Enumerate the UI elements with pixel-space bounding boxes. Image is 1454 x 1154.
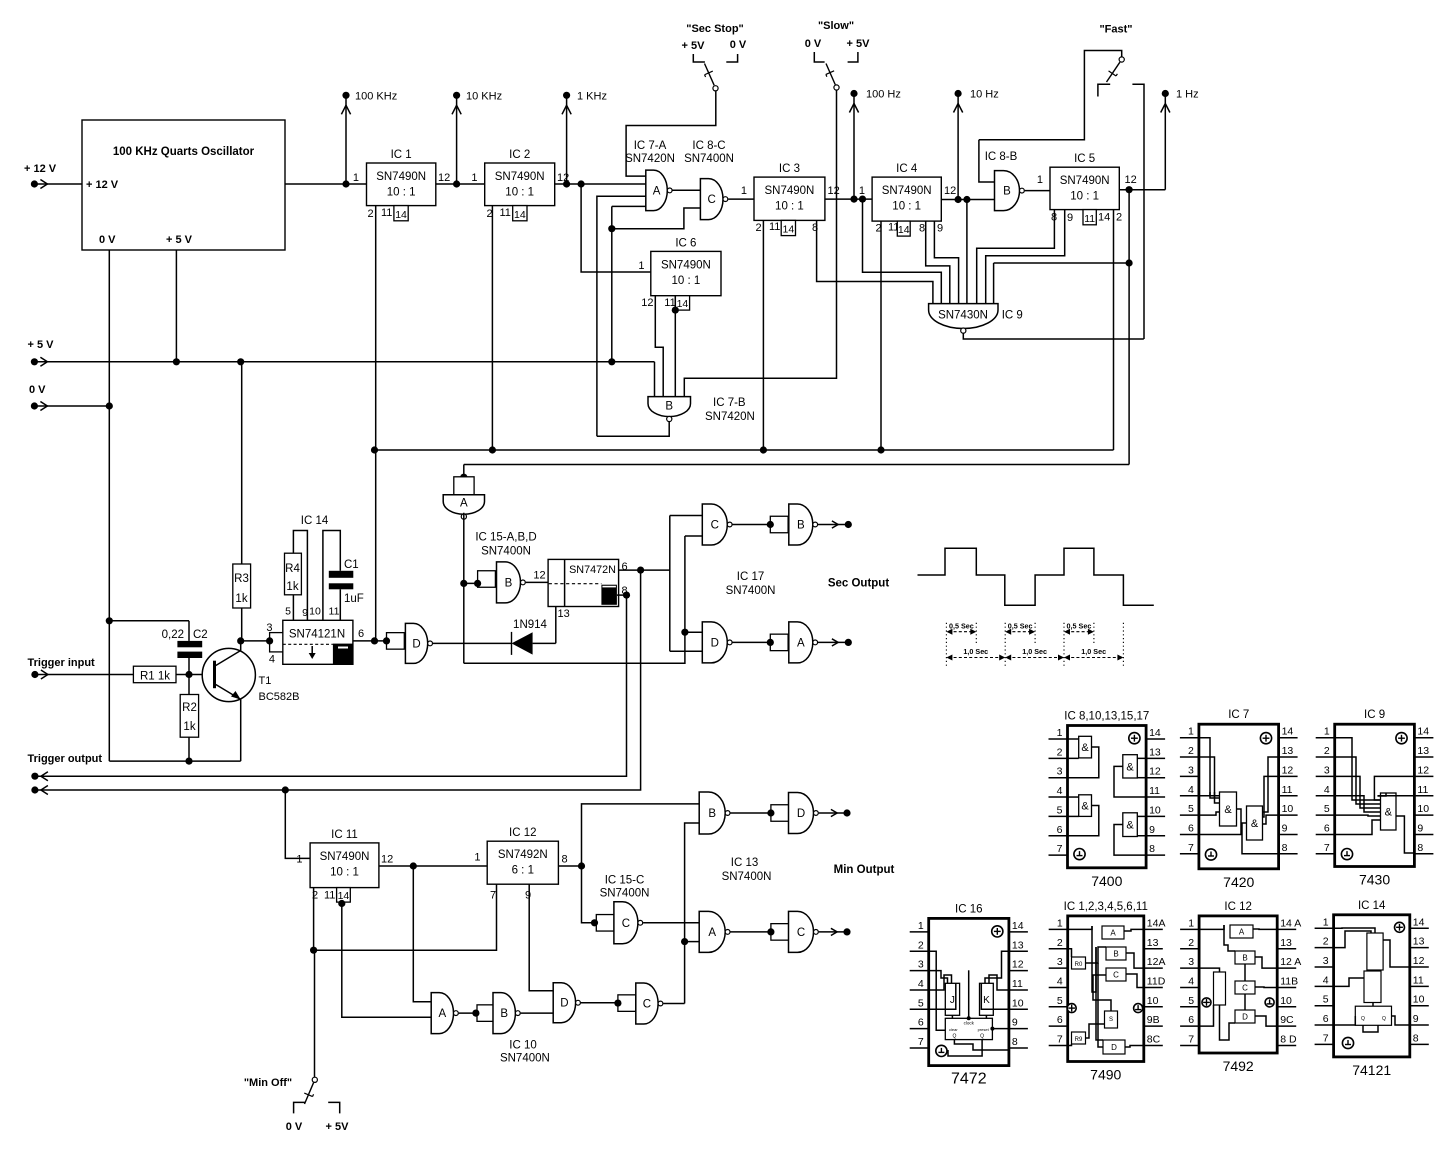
svg-text:SN7490N: SN7490N <box>1060 175 1110 187</box>
svg-text:C: C <box>643 999 651 1011</box>
svg-text:14 A: 14 A <box>1280 917 1301 929</box>
svg-text:1: 1 <box>474 852 480 864</box>
svg-text:SN7400N: SN7400N <box>481 546 531 558</box>
svg-text:7: 7 <box>1057 843 1063 855</box>
svg-text:A: A <box>1110 929 1116 938</box>
svg-text:6: 6 <box>1324 822 1330 834</box>
svg-text:7: 7 <box>918 1036 924 1048</box>
svg-text:+ 5V: + 5V <box>326 1121 350 1133</box>
svg-text:7: 7 <box>1188 1034 1194 1046</box>
svg-text:1: 1 <box>918 920 924 932</box>
svg-text:IC 3: IC 3 <box>779 163 800 175</box>
svg-text:IC 9: IC 9 <box>1002 310 1023 322</box>
svg-text:14: 14 <box>338 890 350 902</box>
svg-text:&: & <box>1126 761 1134 773</box>
svg-text:3: 3 <box>918 959 924 971</box>
svg-text:Q: Q <box>1361 1016 1365 1022</box>
svg-text:R1 1k: R1 1k <box>140 671 170 683</box>
svg-text:7: 7 <box>1323 1032 1329 1044</box>
svg-text:D: D <box>711 637 719 649</box>
svg-text:SN7490N: SN7490N <box>320 851 370 863</box>
svg-text:14: 14 <box>1149 727 1161 739</box>
svg-text:12: 12 <box>438 172 450 184</box>
svg-text:Q: Q <box>952 1034 956 1040</box>
svg-text:D: D <box>1111 1043 1117 1052</box>
svg-text:C: C <box>1242 984 1248 993</box>
svg-text:8C: 8C <box>1147 1034 1161 1046</box>
svg-text:8: 8 <box>1282 842 1288 854</box>
svg-text:7: 7 <box>1324 842 1330 854</box>
svg-text:1k: 1k <box>183 721 195 733</box>
svg-text:1: 1 <box>1324 726 1330 738</box>
svg-text:1 KHz: 1 KHz <box>577 90 607 102</box>
svg-text:&: & <box>1126 820 1134 832</box>
svg-text:10 : 1: 10 : 1 <box>892 201 921 213</box>
svg-text:9: 9 <box>937 223 943 235</box>
svg-text:7420: 7420 <box>1223 874 1254 890</box>
svg-text:preset: preset <box>978 1027 990 1032</box>
svg-text:&: & <box>1224 804 1232 816</box>
svg-text:D: D <box>560 998 568 1010</box>
svg-text:4: 4 <box>1188 784 1194 796</box>
svg-text:SN7420N: SN7420N <box>705 411 755 423</box>
svg-text:0 V: 0 V <box>805 38 822 50</box>
svg-text:+ 5V: + 5V <box>847 38 871 50</box>
svg-text:1k: 1k <box>235 593 247 605</box>
svg-text:6: 6 <box>622 561 628 573</box>
svg-text:12A: 12A <box>1147 956 1166 968</box>
svg-text:5: 5 <box>1188 995 1194 1007</box>
svg-text:IC 7: IC 7 <box>1228 709 1249 721</box>
svg-text:8: 8 <box>1012 1036 1018 1048</box>
svg-text:IC 11: IC 11 <box>331 829 358 841</box>
svg-text:7400: 7400 <box>1091 873 1122 889</box>
svg-text:9: 9 <box>525 890 531 902</box>
svg-text:9: 9 <box>1149 824 1155 836</box>
svg-text:2: 2 <box>1188 745 1194 757</box>
svg-text:12: 12 <box>1282 764 1294 776</box>
svg-text:SN7490N: SN7490N <box>765 185 815 197</box>
svg-text:1,0 Sec: 1,0 Sec <box>963 647 988 656</box>
svg-text:B: B <box>500 1008 508 1020</box>
svg-text:C: C <box>708 194 716 206</box>
svg-text:7: 7 <box>1188 842 1194 854</box>
svg-text:1: 1 <box>1188 917 1194 929</box>
svg-text:2: 2 <box>1188 937 1194 949</box>
svg-text:1k: 1k <box>286 581 298 593</box>
svg-text:8 D: 8 D <box>1280 1034 1297 1046</box>
svg-text:Sec Output: Sec Output <box>828 578 890 590</box>
svg-text:11: 11 <box>324 890 335 902</box>
svg-text:5: 5 <box>1324 803 1330 815</box>
svg-text:SN7420N: SN7420N <box>625 153 675 165</box>
svg-text:10 : 1: 10 : 1 <box>672 275 701 287</box>
svg-text:D: D <box>797 808 805 820</box>
svg-text:10: 10 <box>1149 804 1161 816</box>
svg-text:12 A: 12 A <box>1280 956 1301 968</box>
svg-text:8: 8 <box>1149 843 1155 855</box>
svg-text:9B: 9B <box>1147 1014 1160 1026</box>
svg-text:11: 11 <box>1417 784 1428 796</box>
svg-text:6: 6 <box>1057 824 1063 836</box>
svg-text:14: 14 <box>783 224 795 236</box>
svg-text:2: 2 <box>1057 746 1063 758</box>
svg-text:2: 2 <box>368 208 374 220</box>
svg-text:D: D <box>412 638 420 650</box>
svg-text:SN7490N: SN7490N <box>495 171 545 183</box>
svg-text:11: 11 <box>329 606 340 618</box>
svg-text:13: 13 <box>558 608 570 620</box>
svg-text:C1: C1 <box>344 559 359 571</box>
svg-text:12: 12 <box>944 185 956 197</box>
svg-text:B: B <box>665 401 673 413</box>
svg-text:7: 7 <box>490 890 496 902</box>
svg-text:11: 11 <box>1012 978 1023 990</box>
svg-text:2: 2 <box>1324 745 1330 757</box>
svg-text:A: A <box>439 1008 447 1020</box>
svg-text:0,5 Sec: 0,5 Sec <box>1008 622 1033 631</box>
svg-text:A: A <box>460 497 468 509</box>
svg-text:1 Hz: 1 Hz <box>1176 89 1199 101</box>
svg-text:4: 4 <box>1324 784 1330 796</box>
svg-text:5: 5 <box>285 606 291 618</box>
svg-text:0,5 Sec: 0,5 Sec <box>1067 622 1092 631</box>
svg-text:&: & <box>1081 742 1089 754</box>
svg-text:14: 14 <box>1413 916 1425 928</box>
svg-text:13: 13 <box>1147 937 1159 949</box>
svg-text:8: 8 <box>562 854 568 866</box>
svg-text:10 Hz: 10 Hz <box>970 89 999 101</box>
svg-text:13: 13 <box>1280 937 1292 949</box>
svg-text:3: 3 <box>1188 956 1194 968</box>
svg-text:T1: T1 <box>259 675 272 687</box>
svg-text:clock: clock <box>964 1021 975 1026</box>
svg-text:14: 14 <box>1098 212 1110 224</box>
svg-text:100 KHz: 100 KHz <box>355 90 397 102</box>
svg-text:C2: C2 <box>193 629 208 641</box>
svg-text:B: B <box>1113 950 1118 959</box>
svg-text:10 : 1: 10 : 1 <box>1070 191 1099 203</box>
svg-text:1: 1 <box>741 185 747 197</box>
svg-text:BC582B: BC582B <box>259 691 300 703</box>
svg-text:10: 10 <box>1147 995 1159 1007</box>
svg-text:1: 1 <box>1188 726 1194 738</box>
svg-text:10: 10 <box>1417 803 1429 815</box>
svg-text:9: 9 <box>1282 822 1288 834</box>
svg-text:9: 9 <box>1012 1017 1018 1029</box>
svg-text:12: 12 <box>828 185 840 197</box>
svg-text:K: K <box>983 995 990 1006</box>
svg-text:8: 8 <box>919 223 925 235</box>
svg-text:7490: 7490 <box>1090 1067 1121 1083</box>
svg-text:9C: 9C <box>1280 1014 1294 1026</box>
svg-text:12: 12 <box>1125 174 1137 186</box>
svg-text:10 : 1: 10 : 1 <box>387 187 416 199</box>
svg-text:11: 11 <box>1084 213 1095 225</box>
svg-text:IC 8,10,13,15,17: IC 8,10,13,15,17 <box>1064 711 1149 723</box>
svg-text:R3: R3 <box>234 573 249 585</box>
svg-text:IC 4: IC 4 <box>896 163 918 175</box>
svg-text:+ 12 V: + 12 V <box>24 163 57 175</box>
svg-text:IC 14: IC 14 <box>301 515 329 527</box>
svg-text:1: 1 <box>859 185 865 197</box>
svg-text:11: 11 <box>500 207 511 219</box>
svg-text:10 : 1: 10 : 1 <box>775 201 804 213</box>
svg-text:B: B <box>1242 954 1247 963</box>
svg-text:14: 14 <box>1012 920 1024 932</box>
svg-text:7472: 7472 <box>951 1071 987 1088</box>
svg-text:"Fast": "Fast" <box>1099 24 1132 36</box>
svg-text:SN7490N: SN7490N <box>376 171 426 183</box>
svg-text:13: 13 <box>1012 939 1024 951</box>
svg-text:13: 13 <box>1282 745 1294 757</box>
svg-text:3: 3 <box>1057 956 1063 968</box>
svg-text:3: 3 <box>1323 955 1329 967</box>
svg-text:B: B <box>1003 186 1011 198</box>
svg-text:2: 2 <box>1116 212 1122 224</box>
svg-text:IC 9: IC 9 <box>1364 709 1385 721</box>
svg-text:IC 8-B: IC 8-B <box>985 151 1018 163</box>
svg-text:IC 13: IC 13 <box>731 857 759 869</box>
svg-text:IC 5: IC 5 <box>1074 153 1095 165</box>
svg-text:R0: R0 <box>1075 962 1083 968</box>
svg-text:IC 17: IC 17 <box>737 571 765 583</box>
svg-text:+ 5 V: + 5 V <box>166 234 193 246</box>
svg-text:4: 4 <box>1323 974 1329 986</box>
svg-text:100 Hz: 100 Hz <box>866 89 901 101</box>
svg-text:3: 3 <box>1188 764 1194 776</box>
svg-text:3: 3 <box>1324 764 1330 776</box>
svg-text:11B: 11B <box>1280 975 1298 987</box>
svg-text:0 V: 0 V <box>29 384 46 396</box>
svg-text:100 KHz Quarts Oscillator: 100 KHz Quarts Oscillator <box>113 146 255 158</box>
svg-text:8: 8 <box>1413 1032 1419 1044</box>
svg-text:1,0 Sec: 1,0 Sec <box>1022 647 1047 656</box>
svg-text:1uF: 1uF <box>344 593 364 605</box>
svg-text:4: 4 <box>269 654 275 666</box>
svg-text:C: C <box>797 927 805 939</box>
svg-text:4: 4 <box>1057 975 1063 987</box>
svg-text:SN7490N: SN7490N <box>661 259 711 271</box>
svg-text:3: 3 <box>266 622 272 634</box>
svg-text:13: 13 <box>1149 746 1161 758</box>
svg-text:2: 2 <box>756 222 762 234</box>
svg-text:3: 3 <box>1057 766 1063 778</box>
svg-text:"Min Off": "Min Off" <box>244 1077 292 1089</box>
svg-text:1N914: 1N914 <box>513 619 547 631</box>
svg-text:6: 6 <box>918 1017 924 1029</box>
svg-text:&: & <box>1251 818 1259 830</box>
svg-text:14A: 14A <box>1147 917 1166 929</box>
svg-text:8: 8 <box>1417 842 1423 854</box>
svg-text:IC 7-A: IC 7-A <box>634 140 667 152</box>
svg-text:IC 7-B: IC 7-B <box>713 397 746 409</box>
svg-text:10: 10 <box>1282 803 1294 815</box>
svg-text:IC 2: IC 2 <box>509 149 530 161</box>
svg-text:74121: 74121 <box>1352 1062 1391 1078</box>
svg-text:12: 12 <box>533 570 545 582</box>
svg-text:11: 11 <box>1149 785 1160 797</box>
svg-text:1: 1 <box>1057 727 1063 739</box>
svg-text:0 V: 0 V <box>286 1121 303 1133</box>
svg-text:1: 1 <box>471 172 477 184</box>
svg-text:R9: R9 <box>1075 1037 1083 1043</box>
svg-text:6 : 1: 6 : 1 <box>512 865 534 877</box>
svg-text:10: 10 <box>1012 997 1024 1009</box>
svg-text:9: 9 <box>302 607 308 619</box>
svg-text:5: 5 <box>1188 803 1194 815</box>
svg-text:13: 13 <box>1413 936 1425 948</box>
svg-text:4: 4 <box>918 978 924 990</box>
svg-text:1: 1 <box>1323 916 1329 928</box>
svg-text:2: 2 <box>1057 937 1063 949</box>
svg-text:11: 11 <box>1282 784 1293 796</box>
svg-text:11: 11 <box>381 207 392 219</box>
svg-text:Q: Q <box>1382 1016 1386 1022</box>
svg-text:6: 6 <box>358 628 364 640</box>
svg-text:1: 1 <box>296 854 302 866</box>
svg-text:SN7400N: SN7400N <box>500 1053 550 1065</box>
svg-text:IC 16: IC 16 <box>955 903 983 915</box>
svg-text:B: B <box>797 520 805 532</box>
svg-text:2: 2 <box>918 939 924 951</box>
svg-text:C: C <box>1113 971 1119 980</box>
svg-text:11: 11 <box>769 221 780 233</box>
svg-text:SN7490N: SN7490N <box>882 185 932 197</box>
svg-text:SN7430N: SN7430N <box>938 310 988 322</box>
svg-text:0 V: 0 V <box>99 234 116 246</box>
svg-text:13: 13 <box>1417 745 1429 757</box>
svg-text:0 V: 0 V <box>730 39 747 51</box>
svg-text:12: 12 <box>641 297 653 309</box>
svg-text:12: 12 <box>1012 959 1024 971</box>
svg-text:4: 4 <box>1188 975 1194 987</box>
svg-text:R2: R2 <box>182 702 197 714</box>
svg-text:D: D <box>1242 1013 1248 1022</box>
svg-text:IC 12: IC 12 <box>1224 901 1252 913</box>
svg-text:Trigger output: Trigger output <box>28 753 103 765</box>
svg-text:1: 1 <box>1057 917 1063 929</box>
svg-text:IC 15-A,B,D: IC 15-A,B,D <box>475 532 536 544</box>
svg-text:4: 4 <box>1057 785 1063 797</box>
svg-text:9: 9 <box>1413 1013 1419 1025</box>
svg-text:1: 1 <box>638 260 644 272</box>
svg-text:R4: R4 <box>285 563 300 575</box>
svg-text:6: 6 <box>1323 1013 1329 1025</box>
svg-text:IC 10: IC 10 <box>509 1040 537 1052</box>
svg-text:1: 1 <box>1037 174 1043 186</box>
svg-text:10: 10 <box>309 606 321 618</box>
svg-text:A: A <box>797 637 805 649</box>
svg-text:SN7400N: SN7400N <box>600 888 650 900</box>
svg-text:14: 14 <box>395 209 407 221</box>
svg-text:5: 5 <box>1057 995 1063 1007</box>
svg-text:7492: 7492 <box>1223 1058 1254 1074</box>
svg-text:SN7400N: SN7400N <box>684 153 734 165</box>
svg-text:S: S <box>1109 1017 1113 1023</box>
svg-text:11D: 11D <box>1147 975 1166 987</box>
svg-text:SN7472N: SN7472N <box>569 564 616 576</box>
svg-text:IC 12: IC 12 <box>509 827 537 839</box>
svg-text:A: A <box>1239 928 1245 937</box>
svg-text:9: 9 <box>1067 212 1073 224</box>
svg-text:&: & <box>1385 807 1393 819</box>
svg-text:11: 11 <box>1413 974 1424 986</box>
svg-text:0,5 Sec: 0,5 Sec <box>949 622 974 631</box>
svg-text:10 : 1: 10 : 1 <box>330 866 359 878</box>
svg-text:SN7400N: SN7400N <box>726 585 776 597</box>
svg-text:Q: Q <box>980 1034 984 1040</box>
svg-text:5: 5 <box>918 997 924 1009</box>
svg-text:B: B <box>708 808 716 820</box>
svg-text:SN74121N: SN74121N <box>289 629 345 641</box>
svg-text:J: J <box>950 995 955 1006</box>
svg-text:+ 5V: + 5V <box>682 40 706 52</box>
svg-text:0,22: 0,22 <box>162 629 184 641</box>
svg-text:Min Output: Min Output <box>834 864 895 876</box>
svg-text:5: 5 <box>1323 994 1329 1006</box>
svg-text:12: 12 <box>1413 955 1425 967</box>
svg-text:12: 12 <box>1149 766 1161 778</box>
svg-text:A: A <box>708 927 716 939</box>
svg-text:IC 14: IC 14 <box>1358 900 1386 912</box>
svg-text:IC 15-C: IC 15-C <box>605 875 645 887</box>
svg-text:SN7400N: SN7400N <box>722 871 772 883</box>
svg-text:C: C <box>622 918 630 930</box>
svg-text:14: 14 <box>898 224 910 236</box>
svg-text:14: 14 <box>1282 726 1294 738</box>
svg-text:B: B <box>505 577 513 589</box>
svg-text:IC 8-C: IC 8-C <box>692 140 725 152</box>
svg-text:7: 7 <box>1057 1034 1063 1046</box>
svg-text:Trigger input: Trigger input <box>28 657 96 669</box>
svg-text:&: & <box>1081 801 1089 813</box>
svg-text:A: A <box>653 185 661 197</box>
svg-text:12: 12 <box>381 854 393 866</box>
svg-text:IC 6: IC 6 <box>675 237 696 249</box>
svg-text:6: 6 <box>1188 822 1194 834</box>
svg-text:"Slow": "Slow" <box>818 20 854 32</box>
svg-text:9: 9 <box>1417 822 1423 834</box>
svg-text:10 KHz: 10 KHz <box>466 90 502 102</box>
svg-text:"Sec Stop": "Sec Stop" <box>686 23 744 35</box>
svg-text:+ 12 V: + 12 V <box>86 179 119 191</box>
svg-text:C: C <box>711 520 719 532</box>
svg-text:10 : 1: 10 : 1 <box>505 187 534 199</box>
svg-text:IC 1,2,3,4,5,6,11: IC 1,2,3,4,5,6,11 <box>1064 901 1148 913</box>
svg-text:6: 6 <box>1057 1014 1063 1026</box>
svg-text:1,0 Sec: 1,0 Sec <box>1081 647 1106 656</box>
svg-text:1: 1 <box>353 172 359 184</box>
svg-text:+ 5 V: + 5 V <box>28 339 55 351</box>
svg-text:SN7492N: SN7492N <box>498 849 548 861</box>
svg-text:10: 10 <box>1280 995 1292 1007</box>
svg-text:IC 1: IC 1 <box>391 149 412 161</box>
svg-text:14: 14 <box>514 209 526 221</box>
svg-text:2: 2 <box>1323 936 1329 948</box>
svg-text:12: 12 <box>1417 764 1429 776</box>
svg-text:clear: clear <box>949 1027 958 1032</box>
svg-text:6: 6 <box>1188 1014 1194 1026</box>
svg-text:14: 14 <box>1417 726 1429 738</box>
svg-text:5: 5 <box>1057 804 1063 816</box>
svg-text:10: 10 <box>1413 994 1425 1006</box>
svg-text:7430: 7430 <box>1359 872 1390 888</box>
